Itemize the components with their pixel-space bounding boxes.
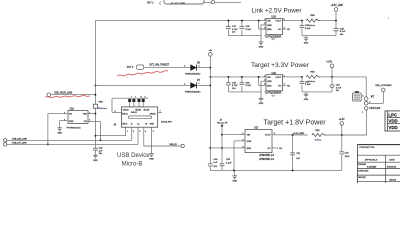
svg-text:GND: GND <box>259 103 264 105</box>
svg-text:2: 2 <box>264 80 265 82</box>
svg-text:TLV70233DBVR: TLV70233DBVR <box>265 93 282 95</box>
svg-text:APPROVALS: APPROVALS <box>365 159 378 162</box>
svg-text:NC: NC <box>278 29 282 31</box>
svg-text:VOUT: VOUT <box>276 21 283 23</box>
svg-text:1uF: 1uF <box>213 162 217 164</box>
svg-text:U19: U19 <box>272 72 277 75</box>
svg-text:4.7uF: 4.7uF <box>336 87 342 89</box>
svg-text:ENA: ENA <box>247 147 252 150</box>
svg-text:VIN: VIN <box>247 135 251 137</box>
svg-text:GND: GND <box>232 181 237 183</box>
svg-text:GND: GND <box>150 123 155 125</box>
svg-text:+1.8V_REG: +1.8V_REG <box>293 133 305 135</box>
svg-text:0.1uF: 0.1uF <box>305 84 311 86</box>
svg-text:5: 5 <box>153 131 154 133</box>
svg-text:1: 1 <box>362 112 363 114</box>
svg-text:U17: U17 <box>254 126 259 129</box>
svg-text:1: 1 <box>264 75 265 77</box>
svg-text:PMEG2020AEJ: PMEG2020AEJ <box>185 90 200 93</box>
svg-text:VDD_LPC54102: VDD_LPC54102 <box>375 85 392 87</box>
svg-text:3: 3 <box>264 84 265 86</box>
svg-text:GND: GND <box>267 25 272 27</box>
svg-text:GND: GND <box>93 160 98 162</box>
svg-text:2: 2 <box>184 66 185 68</box>
svg-text:2: 2 <box>184 83 185 85</box>
svg-text:U16: U16 <box>70 108 75 110</box>
svg-text:SHLD1: SHLD1 <box>122 113 128 115</box>
svg-text:VDD: VDD <box>388 119 397 124</box>
svg-text:3/30/16: 3/30/16 <box>389 179 397 181</box>
svg-text:8: 8 <box>131 96 132 98</box>
svg-text:LP5907MF-1.8: LP5907MF-1.8 <box>259 155 275 157</box>
svg-text:NC: NC <box>287 29 291 31</box>
svg-text:0.1uF: 0.1uF <box>246 85 252 87</box>
svg-text:USB_DM_LINK: USB_DM_LINK <box>12 139 28 141</box>
svg-text:+1.8V: +1.8V <box>338 119 345 121</box>
svg-text:SHLD6: SHLD6 <box>150 113 156 115</box>
svg-text:USB_VBUS_LINK: USB_VBUS_LINK <box>54 93 73 95</box>
svg-text:USB_ID: USB_ID <box>169 144 177 146</box>
svg-text:0.1uF: 0.1uF <box>246 29 252 31</box>
svg-text:1: 1 <box>199 83 200 85</box>
svg-text:1: 1 <box>127 131 128 133</box>
svg-text:1uF: 1uF <box>99 150 103 152</box>
svg-text:ISSUED: ISSUED <box>358 177 366 179</box>
svg-text:2: 2 <box>133 131 134 133</box>
svg-text:+5V_EXT_PWR: +5V_EXT_PWR <box>170 3 185 5</box>
svg-text:VDD: VDD <box>83 114 88 116</box>
svg-text:Link +2.5V Power: Link +2.5V Power <box>252 8 302 15</box>
svg-text:4.7uF: 4.7uF <box>232 29 238 31</box>
svg-text:VBUS: VBUS <box>122 123 128 125</box>
svg-text:SHLD4: SHLD4 <box>135 109 141 111</box>
svg-text:VOUT: VOUT <box>265 135 272 137</box>
svg-text:NC: NC <box>287 85 291 87</box>
svg-text:GND: GND <box>304 99 309 101</box>
svg-text:GND: GND <box>247 141 252 143</box>
svg-text:+2.5V_LINK: +2.5V_LINK <box>331 5 344 7</box>
svg-text:10V: 10V <box>213 166 217 168</box>
svg-text:2: 2 <box>264 23 265 25</box>
svg-text:11: 11 <box>144 96 146 98</box>
svg-text:USB Device: USB Device <box>117 153 150 159</box>
svg-text:SHLD5: SHLD5 <box>143 109 149 111</box>
svg-text:CONTRACT NO.: CONTRACT NO. <box>359 146 375 149</box>
svg-text:HDR 1x03: HDR 1x03 <box>370 108 381 110</box>
svg-text:0ohms: 0ohms <box>309 81 316 83</box>
svg-text:Fanout_TP: Fanout_TP <box>217 121 228 124</box>
svg-text:7: 7 <box>160 111 161 113</box>
svg-text:+3.3V: +3.3V <box>326 62 333 64</box>
svg-text:1: 1 <box>199 65 200 67</box>
svg-text:SHLD2: SHLD2 <box>131 112 137 114</box>
svg-text:GND: GND <box>149 158 154 160</box>
svg-text:DRAWN: DRAWN <box>358 163 366 166</box>
svg-text:PRTR5V0U2X: PRTR5V0U2X <box>67 128 82 130</box>
svg-text:3: 3 <box>139 131 140 133</box>
svg-text:NC: NC <box>279 148 283 150</box>
svg-text:SHLD3: SHLD3 <box>123 109 129 111</box>
svg-text:SOT: SOT <box>272 39 275 41</box>
svg-text:LPC: LPC <box>388 112 398 117</box>
svg-text:PMEG2020AEJ: PMEG2020AEJ <box>185 73 200 76</box>
svg-text:VIN: VIN <box>267 77 271 79</box>
svg-text:D+: D+ <box>137 123 139 125</box>
svg-text:Micro-B: Micro-B <box>122 162 143 168</box>
svg-text:TLV70225DBVR: TLV70225DBVR <box>265 36 282 38</box>
svg-text:GND: GND <box>57 133 62 135</box>
svg-text:4.7uF: 4.7uF <box>232 85 238 87</box>
svg-text:LP5907MF-1.8: LP5907MF-1.8 <box>259 159 275 161</box>
svg-text:1uF: 1uF <box>296 158 300 160</box>
svg-text:0ohms: 0ohms <box>309 25 316 27</box>
svg-text:SHT 1: SHT 1 <box>147 3 154 5</box>
svg-text:ENA: ENA <box>267 28 272 31</box>
svg-text:0.1uF: 0.1uF <box>226 162 232 164</box>
svg-text:SHT 3: SHT 3 <box>127 67 134 69</box>
svg-text:VOUT: VOUT <box>276 77 283 79</box>
svg-text:4: 4 <box>277 148 278 150</box>
svg-text:GND: GND <box>259 47 264 49</box>
svg-text:GND: GND <box>304 43 309 45</box>
svg-text:1: 1 <box>264 19 265 21</box>
svg-text:NC: NC <box>268 148 272 150</box>
svg-text:ENA: ENA <box>267 84 272 87</box>
svg-text:3: 3 <box>264 27 265 29</box>
svg-text:220ohms: 220ohms <box>98 108 108 110</box>
svg-text:10: 10 <box>140 96 142 98</box>
svg-text:CHECKED: CHECKED <box>358 171 369 173</box>
svg-text:VIN: VIN <box>267 21 271 23</box>
svg-text:9: 9 <box>135 96 136 98</box>
svg-text:GND: GND <box>69 121 74 123</box>
svg-text:U18: U18 <box>272 16 277 19</box>
svg-text:0ohms: 0ohms <box>315 139 322 141</box>
svg-text:GND: GND <box>267 81 272 83</box>
svg-text:NC: NC <box>278 85 282 87</box>
svg-text:2: 2 <box>242 139 243 141</box>
svg-text:3: 3 <box>242 146 243 148</box>
svg-text:6: 6 <box>115 111 116 113</box>
svg-text:10uF: 10uF <box>345 156 351 158</box>
svg-text:VDD: VDD <box>388 125 397 130</box>
svg-text:EXT_VIN_TARGET: EXT_VIN_TARGET <box>150 63 170 66</box>
svg-text:SOT: SOT <box>272 95 275 97</box>
svg-text:1: 1 <box>242 133 243 135</box>
svg-text:Target +1.8V Power: Target +1.8V Power <box>264 119 327 126</box>
svg-text:DX2-B-SP9: DX2-B-SP9 <box>161 122 173 124</box>
svg-text:4: 4 <box>145 131 146 133</box>
svg-text:3: 3 <box>362 96 363 98</box>
svg-text:Target +3.3V Power: Target +3.3V Power <box>251 62 310 69</box>
svg-text:0.1uF: 0.1uF <box>305 28 311 30</box>
svg-text:USB_DP_LINK: USB_DP_LINK <box>12 143 27 145</box>
svg-text:DATE: DATE <box>389 159 395 162</box>
svg-text:4.7uF: 4.7uF <box>340 31 346 33</box>
